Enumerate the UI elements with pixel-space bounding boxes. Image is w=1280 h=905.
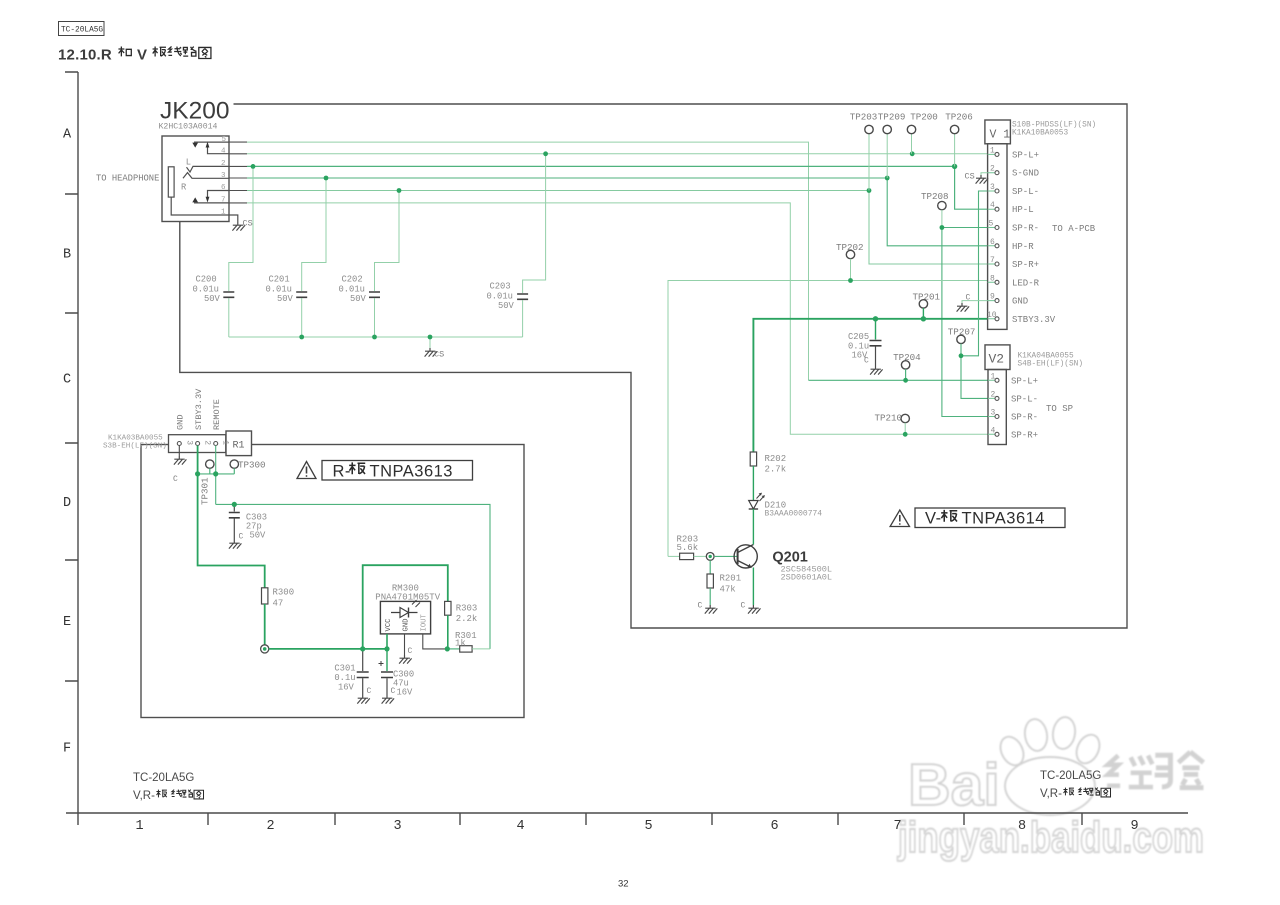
svg-text:K2HC103A0014: K2HC103A0014 (159, 123, 218, 132)
svg-text:TP203: TP203 (850, 112, 878, 123)
ground C at C303 (229, 533, 244, 549)
ground CS at jack (232, 219, 252, 231)
bottom axis (66, 813, 1188, 825)
ground C at C300 (382, 687, 396, 704)
wire RM300 VCC pin (386, 634, 388, 649)
svg-text:CS: CS (965, 172, 975, 182)
wire net jack pin6 to V1 SP-R+ (247, 191, 988, 265)
svg-text:TP300: TP300 (238, 460, 266, 471)
junction dots V right area (848, 225, 963, 437)
svg-text:3: 3 (221, 172, 226, 180)
jack pin 5 contact with down arrow (192, 142, 229, 148)
JK200 part number K2HC103A0014 (159, 123, 218, 132)
test point TP200 (907, 112, 937, 154)
connector V2 header (985, 345, 1010, 370)
svg-text:C301: C301 (334, 664, 355, 674)
wire RM300 GND pin to ground (404, 634, 406, 655)
svg-text:1: 1 (221, 209, 226, 217)
svg-text:47: 47 (273, 599, 284, 609)
svg-text:V2: V2 (989, 352, 1005, 367)
svg-text:C: C (63, 373, 71, 388)
svg-text:TNPA3613: TNPA3613 (370, 463, 454, 481)
wire S3B pin3 to ground (178, 446, 180, 457)
wire net SP-L- V1 pin3 to V2 pin2 (961, 191, 988, 398)
headphone jack JK200 body (162, 136, 229, 222)
test point TP207 (948, 327, 976, 356)
jack pin 6 contact with down arrow (206, 191, 229, 203)
transistor Q201 (734, 543, 757, 605)
svg-text:C: C (698, 602, 703, 611)
svg-text:S-GND: S-GND (1012, 169, 1039, 179)
svg-text:TO A-PCB: TO A-PCB (1052, 224, 1096, 234)
svg-text:1k: 1k (455, 638, 466, 648)
svg-text:SP-L-: SP-L- (1012, 187, 1039, 197)
S3B pins (177, 442, 217, 446)
svg-text:V 1: V 1 (990, 129, 1011, 142)
svg-text:V,R-: V,R- (1040, 788, 1062, 800)
test point TP300 (230, 460, 265, 474)
title 12.10 R and V board circuit diagram (58, 47, 211, 64)
svg-text:12.10.R: 12.10.R (58, 47, 112, 64)
wire V1 pin2 to ground CS (981, 173, 988, 175)
svg-text:SP-R-: SP-R- (1011, 413, 1038, 423)
svg-text:7: 7 (894, 819, 902, 834)
svg-text:TNPA3614: TNPA3614 (962, 510, 1046, 528)
svg-text:C205: C205 (848, 332, 869, 342)
capacitor C205 (848, 319, 882, 366)
svg-text:HP-L: HP-L (1012, 205, 1034, 215)
svg-text:16V: 16V (338, 683, 355, 693)
svg-text:C: C (408, 647, 413, 656)
connector V1 body (988, 144, 1007, 330)
svg-text:2.7k: 2.7k (765, 465, 787, 475)
wire net R jack pin3 (247, 178, 988, 246)
connector V1 header (985, 120, 1011, 144)
capacitor C200 (193, 166, 254, 337)
svg-text:GND: GND (403, 619, 411, 632)
svg-text:6: 6 (221, 184, 226, 192)
svg-text:5.6k: 5.6k (677, 543, 699, 553)
capacitor C300 polarized (379, 649, 415, 698)
svg-text:0.01u: 0.01u (266, 285, 292, 295)
test point TP206 (945, 112, 973, 167)
svg-text:D: D (63, 496, 71, 511)
svg-text:TC-20LA5G: TC-20LA5G (1040, 770, 1101, 782)
svg-text:SP-R+: SP-R+ (1011, 430, 1038, 440)
svg-text:3: 3 (184, 440, 193, 445)
svg-text:TP210: TP210 (875, 413, 903, 424)
svg-text:R201: R201 (720, 574, 742, 584)
jack pin 4 contact with up arrow (206, 142, 229, 154)
svg-text:TC-20LA5G: TC-20LA5G (61, 27, 103, 35)
svg-text:STBY3.3V: STBY3.3V (1012, 315, 1056, 325)
svg-text:B3AAA0000774: B3AAA0000774 (765, 510, 823, 519)
ground C at S3B pin3 (173, 456, 186, 484)
capacitor C201 (266, 178, 327, 337)
ground C under C205 (864, 357, 883, 375)
ground C at Q201 emitter (741, 602, 761, 614)
row letters (63, 128, 72, 757)
svg-text:4: 4 (517, 819, 525, 834)
junction dots on jack nets (251, 151, 958, 339)
connector V2 body (988, 370, 1006, 445)
svg-text:S3B-EH(LF)(SN): S3B-EH(LF)(SN) (103, 443, 167, 451)
LED D210 (749, 493, 823, 543)
resistor R300 (262, 588, 295, 645)
svg-text:TP206: TP206 (945, 112, 973, 123)
svg-text:C203: C203 (490, 282, 511, 292)
ground C at RM300 (399, 647, 412, 664)
S3B part numbers (103, 435, 167, 451)
Q201 labels (772, 550, 832, 583)
svg-text:1: 1 (221, 440, 230, 445)
svg-text:SP-R-: SP-R- (1012, 224, 1039, 234)
wire via to base (714, 555, 738, 557)
V1 pin labels (1012, 150, 1056, 324)
capacitor C202 (339, 191, 400, 338)
wire net LED-R V1 pin8 to Q201 base (668, 281, 988, 557)
warning triangle R board (297, 462, 316, 479)
svg-text:R300: R300 (273, 588, 295, 598)
svg-text:C: C (966, 294, 971, 303)
junction dots R board (195, 471, 450, 651)
svg-text:S4B-EH(LF)(SN): S4B-EH(LF)(SN) (1018, 361, 1084, 369)
svg-text:CS: CS (434, 350, 444, 360)
svg-text:R: R (181, 183, 187, 193)
svg-text:E: E (63, 615, 71, 630)
svg-text:1: 1 (136, 819, 144, 834)
svg-text:K1KA10BA0053: K1KA10BA0053 (1012, 130, 1068, 138)
svg-text:50V: 50V (250, 531, 267, 541)
svg-text:C201: C201 (269, 275, 290, 285)
svg-text:5: 5 (645, 819, 653, 834)
svg-text:50V: 50V (498, 301, 515, 311)
svg-text:V-: V- (925, 510, 942, 528)
wire riser and top rail (363, 565, 448, 649)
svg-text:4: 4 (221, 147, 226, 155)
svg-text:A: A (63, 128, 72, 143)
svg-text:R303: R303 (456, 604, 478, 614)
svg-text:GND: GND (1012, 297, 1028, 307)
TO A-PCB label (1052, 224, 1096, 234)
svg-text:jingyan.baidu.com: jingyan.baidu.com (897, 813, 1204, 862)
R-board outline (141, 445, 524, 718)
svg-text:8: 8 (1018, 819, 1026, 834)
V1 pin stubs (988, 154, 995, 318)
capacitor C301 (334, 649, 368, 695)
svg-text:0.1u: 0.1u (334, 673, 355, 683)
wire net SP-R- V1 pin5 to V2 pin3 (942, 228, 988, 417)
test point TP204 (893, 352, 921, 381)
svg-text:0.01u: 0.01u (339, 285, 365, 295)
connector JK200 label (160, 98, 229, 125)
test point TP301 (200, 460, 215, 505)
V-board outline boundary (180, 104, 1127, 628)
svg-text:K1KA04BA0055: K1KA04BA0055 (1018, 353, 1074, 361)
svg-text:0.01u: 0.01u (487, 292, 513, 302)
svg-text:IOUT: IOUT (421, 614, 429, 632)
svg-text:C: C (173, 475, 178, 484)
svg-text:2: 2 (267, 819, 275, 834)
svg-text:2: 2 (203, 440, 212, 445)
svg-text:R-: R- (333, 463, 351, 481)
svg-text:2SD0601A0L: 2SD0601A0L (781, 573, 833, 583)
resistor R301 (447, 631, 490, 652)
test point TP202 (836, 242, 864, 281)
resistor R303 (445, 601, 478, 649)
svg-text:S10B-PHDSS(LF)(SN): S10B-PHDSS(LF)(SN) (1012, 122, 1096, 130)
svg-text:TO HEADPHONE: TO HEADPHONE (96, 174, 159, 184)
warning triangle V board (890, 510, 909, 527)
test point TP209 (878, 112, 906, 179)
svg-text:C200: C200 (196, 275, 217, 285)
svg-text:V,R-: V,R- (133, 790, 155, 802)
svg-text:C202: C202 (342, 275, 363, 285)
svg-text:C: C (864, 357, 869, 366)
wire net SP-L+ horizontal to V2 pin1 (809, 379, 989, 381)
test point TP210 (875, 413, 910, 435)
TO HEADPHONE label (96, 174, 159, 184)
V1 part numbers (1012, 122, 1096, 138)
model label box TC-20LA5G (59, 22, 105, 36)
wire capacitor common rail (229, 336, 523, 338)
V2 pins and numbers (991, 372, 996, 435)
S3B pin names vertical (176, 388, 223, 430)
wire REMOTE horizontal to R301 column (216, 504, 490, 649)
via junction at R300 bottom (261, 645, 269, 653)
jack R ring contact (183, 173, 229, 179)
TO SP label (1046, 404, 1073, 414)
ground CS at V1 pin2 (965, 172, 989, 184)
ground C at R201 (698, 602, 718, 614)
svg-text:3: 3 (394, 819, 402, 834)
svg-text:STBY3.3V: STBY3.3V (194, 388, 204, 430)
resistor R202 (750, 452, 786, 500)
V2 part numbers (1018, 353, 1084, 369)
svg-text:HP-R: HP-R (1012, 242, 1034, 252)
wire net STBY3.3V rail (753, 319, 987, 452)
wire test point link rail (198, 473, 235, 475)
wire net HP5 jack pin5 to V2 SP-L+ (229, 142, 247, 203)
svg-text:47k: 47k (720, 585, 736, 595)
svg-text:R202: R202 (765, 454, 787, 464)
svg-text:VCC: VCC (385, 618, 393, 632)
svg-text:SP-L+: SP-L+ (1011, 376, 1038, 386)
svg-text:TO SP: TO SP (1046, 404, 1073, 414)
jack pin numbers (221, 136, 227, 217)
svg-text:REMOTE: REMOTE (212, 399, 222, 430)
wire net jack pin4 to V1 pin1 SP-L+ (247, 153, 988, 155)
wire REMOTE from pin1 (215, 446, 217, 505)
svg-text:50V: 50V (204, 294, 221, 304)
svg-text:SP-R+: SP-R+ (1012, 260, 1039, 270)
svg-text:JK200: JK200 (160, 98, 229, 125)
footer caption right (1040, 770, 1111, 800)
svg-text:50V: 50V (350, 294, 367, 304)
via junction at Q201 base (706, 553, 714, 561)
svg-text:9: 9 (1131, 819, 1139, 834)
border frame left rail (65, 72, 78, 825)
svg-text:Bai: Bai (908, 752, 1000, 818)
capacitor C303 (229, 504, 267, 540)
S3B pin numbers rotated (184, 440, 229, 445)
svg-text:7: 7 (221, 197, 226, 205)
IC RM300 body (380, 600, 430, 634)
svg-text:6: 6 (771, 819, 779, 834)
V board name box TNPA3614 (915, 508, 1065, 528)
test point TP208 (921, 191, 949, 228)
svg-text:SP-L-: SP-L- (1011, 394, 1038, 404)
wire STBY3.3V from pin2 (198, 446, 265, 588)
svg-text:50V: 50V (277, 294, 294, 304)
test point TP203 (850, 112, 878, 191)
column numbers (136, 819, 1139, 834)
svg-text:K1KA03BA0055: K1KA03BA0055 (108, 435, 163, 443)
svg-text:C: C (741, 602, 746, 611)
V2 pin stubs (988, 380, 995, 434)
jack R label (181, 183, 187, 193)
jack L tip contact (187, 166, 230, 172)
ground C at V1 pin9 (957, 294, 971, 312)
svg-text:32: 32 (618, 879, 629, 890)
svg-text:TP208: TP208 (921, 191, 949, 202)
svg-text:5: 5 (222, 136, 227, 144)
svg-text:16V: 16V (397, 688, 414, 698)
wire net L jack pin2 to junction (247, 166, 988, 209)
ground C at C301 (357, 687, 371, 704)
R board name box TNPA3613 (322, 461, 473, 481)
connector S3B body (169, 435, 226, 453)
footer caption left (133, 772, 204, 802)
resistor R203 (668, 535, 706, 560)
svg-text:SP-L+: SP-L+ (1012, 150, 1039, 160)
svg-text:2.2k: 2.2k (456, 614, 478, 624)
svg-text:GND: GND (176, 415, 186, 430)
RM300 labels (375, 584, 440, 603)
wire supply rail bottom (269, 648, 387, 650)
wire net jack pin7 to V2 SP-R+ (247, 203, 988, 434)
svg-text:L: L (186, 158, 191, 168)
svg-text:V: V (137, 47, 147, 64)
svg-text:0.01u: 0.01u (193, 285, 219, 295)
jack L label (186, 158, 191, 168)
connector R1 box (226, 431, 252, 456)
svg-text:TC-20LA5G: TC-20LA5G (133, 772, 194, 784)
svg-text:2: 2 (221, 160, 226, 168)
svg-text:LED-R: LED-R (1012, 278, 1040, 288)
svg-text:C: C (391, 687, 396, 696)
watermark baidu jingyan logo (897, 716, 1204, 862)
jack pin 7 contact with up arrow (192, 197, 229, 203)
svg-text:B: B (63, 248, 71, 263)
svg-text:F: F (63, 742, 71, 757)
svg-text:CS: CS (243, 219, 253, 229)
wire V1 pin9 to ground C (962, 301, 988, 303)
wire RM300 IOUT pin (423, 634, 448, 649)
V1 pins and numbers (987, 146, 997, 319)
capacitor C203 (487, 154, 546, 337)
jack sleeve bar (168, 167, 174, 197)
svg-text:TP200: TP200 (910, 112, 938, 123)
svg-text:Q201: Q201 (772, 550, 807, 566)
svg-text:C: C (239, 533, 244, 542)
svg-text:TP209: TP209 (878, 112, 906, 123)
V2 pin labels (1011, 376, 1038, 440)
svg-text:TP301: TP301 (200, 477, 211, 505)
test point TP201 (913, 292, 941, 319)
svg-text:R1: R1 (233, 441, 245, 452)
resistor R201 (707, 560, 741, 605)
svg-text:C: C (367, 687, 372, 696)
wire jack pin1 to chassis ground CS (229, 215, 238, 222)
ground CS at capacitor rail (425, 337, 445, 360)
jack sleeve wire to pin 1 (171, 197, 229, 215)
